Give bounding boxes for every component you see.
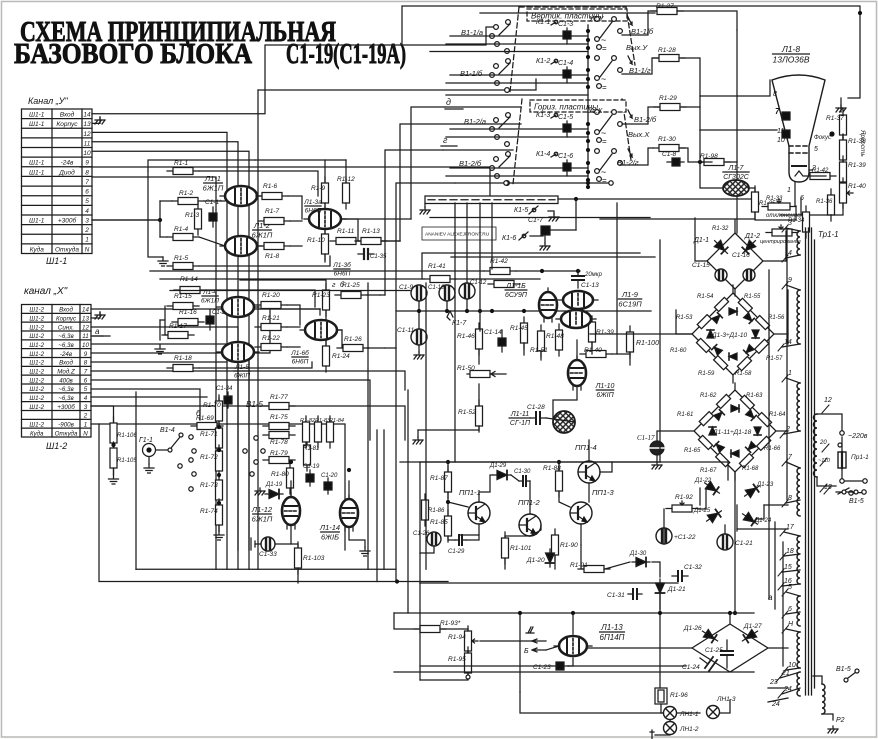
wire bbox=[447, 462, 449, 471]
resistor R1-29 bbox=[654, 104, 686, 111]
svg-text:R1-3: R1-3 bbox=[185, 212, 199, 219]
svg-text:6: 6 bbox=[84, 377, 88, 384]
svg-text:Р2: Р2 bbox=[836, 717, 845, 724]
label Л1-8 bbox=[772, 44, 809, 65]
svg-text:С1-3: С1-3 bbox=[558, 21, 573, 28]
svg-text:Ш1-2: Ш1-2 bbox=[29, 307, 44, 314]
wire bbox=[418, 429, 479, 431]
label Л1-9 bbox=[618, 290, 642, 309]
wire д line bbox=[445, 106, 521, 108]
wire pin8 bbox=[92, 177, 216, 569]
wire bbox=[420, 674, 468, 680]
svg-text:R1-24: R1-24 bbox=[332, 353, 350, 360]
svg-text:6Н6П: 6Н6П bbox=[305, 208, 322, 215]
svg-text:R1-67: R1-67 bbox=[700, 468, 717, 474]
wire -900в bus bbox=[99, 424, 448, 582]
resistor R1-27 bbox=[651, 8, 683, 15]
svg-text:17: 17 bbox=[786, 524, 795, 531]
tube Л1-6 bbox=[300, 320, 342, 340]
connector table Ш1-1 (канал У) bbox=[22, 109, 93, 254]
svg-text:Д1-3÷Д1-10: Д1-3÷Д1-10 bbox=[711, 332, 748, 339]
svg-text:Ш1-2: Ш1-2 bbox=[29, 342, 44, 349]
wire C1-9 to C1-11 bbox=[418, 301, 420, 329]
svg-text:Д1-30: Д1-30 bbox=[629, 551, 647, 557]
capacitor С1-26 bbox=[427, 532, 441, 546]
wire R1-9 top bbox=[324, 160, 326, 182]
wire bbox=[287, 346, 300, 348]
svg-text:К1-7: К1-7 bbox=[452, 320, 467, 327]
svg-text:Фокус: Фокус bbox=[814, 135, 831, 141]
svg-text:С1-11: С1-11 bbox=[397, 327, 415, 334]
wire bus y219 bbox=[600, 218, 755, 220]
svg-text:В1-2/б: В1-2/б bbox=[634, 115, 657, 124]
svg-text:R1-28: R1-28 bbox=[658, 47, 676, 54]
label Л1-3а bbox=[303, 199, 322, 215]
svg-text:С1-4: С1-4 bbox=[558, 60, 573, 67]
winding W1 bbox=[797, 231, 800, 255]
resistor R1-7 bbox=[258, 218, 290, 225]
wire rail y462 bbox=[400, 461, 660, 463]
wire bbox=[734, 383, 736, 390]
wire bbox=[418, 345, 420, 352]
wire bbox=[698, 488, 706, 509]
wire bbox=[447, 502, 449, 515]
svg-text:9: 9 bbox=[84, 351, 88, 358]
svg-text:5: 5 bbox=[814, 146, 818, 153]
winding W3 bbox=[797, 383, 800, 431]
switch В1-2/а bbox=[490, 113, 511, 147]
capacitor C1-34 bbox=[224, 392, 232, 408]
potentiometer R1-92 bbox=[666, 501, 698, 512]
wire bank row bbox=[450, 128, 588, 130]
svg-text:R1-56: R1-56 bbox=[768, 315, 785, 321]
wire R1-32 area bbox=[795, 206, 797, 220]
connector Г1-1 bbox=[143, 444, 156, 457]
label Л1-5 bbox=[234, 364, 250, 380]
svg-text:6ЖIБ: 6ЖIБ bbox=[321, 533, 339, 542]
capacitor C1-32 bbox=[672, 571, 688, 581]
svg-text:4: 4 bbox=[788, 250, 792, 257]
svg-text:г: г bbox=[443, 135, 448, 145]
wire bbox=[530, 525, 541, 536]
label Л1-2 bbox=[252, 221, 273, 240]
ground bbox=[95, 117, 105, 124]
wire bbox=[160, 236, 167, 238]
svg-text:R1-33: R1-33 bbox=[766, 196, 783, 202]
wire bbox=[842, 136, 844, 139]
contact К1-4 bbox=[551, 152, 558, 157]
wire R1-1 to V1 anode bbox=[199, 171, 318, 196]
svg-text:В1-5: В1-5 bbox=[246, 400, 263, 409]
wire bbox=[529, 481, 531, 514]
capacitor С1-15 bbox=[715, 269, 727, 281]
svg-text:Куда: Куда bbox=[30, 245, 45, 253]
svg-text:=: = bbox=[602, 83, 607, 92]
wire bbox=[505, 536, 530, 537]
wire bus y334 bbox=[590, 333, 692, 335]
wire bbox=[478, 426, 480, 430]
capacitor С1-5 bbox=[563, 121, 571, 137]
svg-text:Д1-23: Д1-23 bbox=[756, 482, 774, 488]
resistor R1-96 bbox=[655, 688, 667, 704]
capacitor С1-12 bbox=[459, 283, 475, 299]
box top rails bbox=[422, 253, 655, 279]
svg-text:R1-62: R1-62 bbox=[700, 393, 717, 399]
svg-text:К1-6: К1-6 bbox=[502, 235, 516, 242]
svg-text:Корпус: Корпус bbox=[56, 121, 78, 128]
wire y out 2 bbox=[411, 107, 445, 219]
connector table Ш1-2 (канал Х) bbox=[22, 305, 92, 438]
svg-text:R1-93*: R1-93* bbox=[440, 620, 461, 627]
wire bbox=[325, 341, 327, 345]
resistor R1-88 bbox=[556, 465, 563, 497]
wire pin3 +300б bbox=[92, 219, 160, 221]
wire ПП1-1 collector bbox=[479, 475, 493, 502]
wire bbox=[287, 326, 300, 328]
ground bbox=[360, 547, 370, 556]
svg-text:Мод.Z: Мод.Z bbox=[57, 369, 75, 376]
svg-text:-900в: -900в bbox=[58, 422, 74, 429]
resistor R1-6 bbox=[256, 193, 288, 200]
svg-text:-24в: -24в bbox=[61, 160, 74, 167]
svg-text:Л1-11: Л1-11 bbox=[510, 411, 529, 418]
wire y-amp left rail bbox=[148, 171, 163, 257]
wire bbox=[546, 418, 575, 422]
svg-text:R1-32: R1-32 bbox=[712, 226, 729, 232]
resistor R1-4 bbox=[167, 234, 199, 241]
wire bus x396 bbox=[395, 348, 397, 582]
wire bbox=[554, 556, 556, 569]
transistor ПП1-1 bbox=[468, 502, 490, 524]
resistor R1-25 bbox=[335, 292, 367, 299]
svg-text:R1-39: R1-39 bbox=[848, 162, 866, 169]
svg-text:7: 7 bbox=[84, 369, 88, 376]
svg-text:Д1-11÷Д1-18: Д1-11÷Д1-18 bbox=[712, 429, 752, 436]
wire bridge2 left bbox=[676, 310, 692, 334]
svg-text:R1-86: R1-86 bbox=[428, 508, 445, 514]
svg-text:400в: 400в bbox=[59, 377, 73, 384]
svg-text:R1-26: R1-26 bbox=[344, 336, 362, 343]
svg-text:Д1-29: Д1-29 bbox=[489, 463, 507, 469]
wire bus x769 bbox=[768, 270, 770, 599]
svg-text:Ш1-2: Ш1-2 bbox=[29, 324, 44, 331]
wire bank row bbox=[450, 35, 588, 37]
svg-text:Л1-6б: Л1-6б bbox=[290, 349, 309, 357]
resistor R1-38 bbox=[840, 134, 847, 166]
svg-text:R1-9: R1-9 bbox=[311, 185, 325, 192]
svg-text:Вход: Вход bbox=[60, 111, 75, 119]
svg-text:R1-91: R1-91 bbox=[570, 562, 588, 569]
svg-text:С1-10: С1-10 bbox=[428, 285, 445, 291]
svg-text:R1-48: R1-48 bbox=[546, 333, 564, 340]
wire bbox=[822, 714, 833, 720]
svg-text:Пр1-1: Пр1-1 bbox=[851, 454, 869, 461]
wire bbox=[680, 148, 702, 162]
svg-text:5: 5 bbox=[84, 386, 88, 393]
deflection plate symbol 1 bbox=[782, 112, 790, 120]
wire bbox=[448, 537, 455, 540]
wire bus x258 bbox=[257, 90, 259, 569]
svg-text:R1-17: R1-17 bbox=[169, 323, 187, 330]
svg-text:6Ж1П: 6Ж1П bbox=[252, 231, 273, 240]
wire bus y217 bbox=[430, 217, 650, 219]
wire bbox=[478, 349, 480, 364]
svg-text:1: 1 bbox=[85, 237, 89, 244]
svg-text:ЛН1-3: ЛН1-3 bbox=[716, 696, 736, 703]
resistor R1-34 bbox=[803, 206, 810, 238]
resistor R1-10 bbox=[322, 228, 329, 260]
wire bridge3 to bus bbox=[734, 472, 736, 613]
wire bank row bbox=[446, 82, 588, 84]
resistor R1-74 bbox=[216, 499, 223, 531]
wire bbox=[467, 651, 469, 653]
svg-text:~6,3в: ~6,3в bbox=[58, 386, 74, 393]
svg-text:С1-30: С1-30 bbox=[514, 469, 531, 475]
winding P2 bbox=[822, 684, 825, 714]
svg-text:Д1-20: Д1-20 bbox=[526, 557, 545, 564]
wire bus x377 bbox=[376, 430, 378, 582]
svg-text:Диод: Диод bbox=[58, 168, 75, 176]
tube Л1-3 bbox=[304, 209, 346, 229]
wire bbox=[809, 175, 826, 177]
svg-text:8: 8 bbox=[85, 169, 89, 176]
svg-text:R1-54: R1-54 bbox=[697, 294, 714, 300]
tube Л1-1 bbox=[220, 186, 262, 206]
ground bbox=[95, 312, 105, 319]
wire bbox=[380, 294, 385, 296]
svg-text:11: 11 bbox=[82, 333, 88, 340]
wire bbox=[734, 472, 736, 480]
svg-text:R1-90: R1-90 bbox=[560, 542, 578, 549]
diode Д1-25b bbox=[704, 507, 724, 525]
svg-text:R1-22: R1-22 bbox=[262, 335, 280, 342]
wire bbox=[385, 347, 396, 349]
label Л1-15 bbox=[505, 283, 528, 299]
resistor R1-70 bbox=[216, 395, 223, 427]
wire bus x426 bbox=[425, 283, 427, 569]
tap 2 bbox=[780, 431, 800, 438]
svg-text:R1-64: R1-64 bbox=[769, 412, 786, 418]
ground bbox=[413, 437, 423, 444]
wire R1-4 to V2 bbox=[199, 237, 225, 246]
svg-text:С1-20: С1-20 bbox=[321, 473, 338, 479]
wire bus x787 bbox=[786, 230, 788, 500]
wire bbox=[663, 509, 665, 528]
label Л1-11 bbox=[509, 411, 531, 427]
node Фокус bbox=[829, 131, 834, 136]
svg-text:R1-85: R1-85 bbox=[430, 519, 448, 526]
svg-text:R1-74: R1-74 bbox=[200, 508, 218, 515]
wire bank row bbox=[446, 175, 588, 177]
wire CRT pin6 down bbox=[800, 198, 802, 215]
capacitor C1-29 bbox=[455, 535, 466, 545]
wire bus x368 bbox=[367, 283, 369, 569]
diode Д1-2 bbox=[739, 237, 758, 256]
svg-text:R1-55: R1-55 bbox=[744, 294, 761, 300]
resistor R1-87 bbox=[445, 466, 452, 498]
resistor R1-24 bbox=[323, 340, 330, 372]
label Л1-4 bbox=[201, 289, 219, 305]
svg-text:14: 14 bbox=[82, 307, 89, 314]
wire pin10 bus bbox=[92, 151, 249, 569]
wire bbox=[287, 305, 300, 325]
resistor R1-75 bbox=[263, 423, 295, 430]
svg-text:13ЛО36В: 13ЛО36В bbox=[772, 55, 809, 65]
svg-text:+300б: +300б bbox=[58, 216, 77, 224]
svg-text:R1-50: R1-50 bbox=[457, 365, 475, 372]
wire CRT pin1 down bbox=[794, 182, 796, 206]
wire R1-93 left bbox=[394, 613, 418, 629]
svg-text:R1-8: R1-8 bbox=[265, 253, 279, 260]
wire Ш1-2 pin1 -900в bbox=[91, 424, 345, 550]
wire bbox=[600, 462, 612, 472]
svg-text:Ш1-2: Ш1-2 bbox=[29, 316, 44, 323]
diode Д1-20 bbox=[546, 549, 555, 567]
svg-text:Тр1-1: Тр1-1 bbox=[818, 230, 839, 239]
svg-text:R1-18: R1-18 bbox=[174, 355, 192, 362]
svg-text:7: 7 bbox=[775, 107, 780, 116]
capacitor C1-13 bbox=[572, 270, 584, 288]
svg-text:3: 3 bbox=[85, 217, 89, 224]
capacitor С1-25 bbox=[721, 640, 733, 668]
wire R1-18 bbox=[199, 362, 312, 368]
wire bbox=[831, 204, 843, 215]
svg-text:С1-26: С1-26 bbox=[413, 531, 430, 537]
resistor R1-101 bbox=[502, 532, 509, 564]
svg-text:С1-16: С1-16 bbox=[732, 252, 750, 259]
svg-text:21: 21 bbox=[781, 670, 790, 677]
svg-text:R1-58: R1-58 bbox=[735, 371, 752, 377]
svg-text:3: 3 bbox=[788, 220, 792, 227]
tap Н bbox=[782, 626, 800, 633]
svg-text:+300б: +300б bbox=[57, 404, 75, 411]
capacitor С1-4 bbox=[563, 67, 571, 83]
svg-text:R1-37: R1-37 bbox=[826, 115, 844, 122]
wire bbox=[442, 629, 468, 631]
svg-text:R1-72: R1-72 bbox=[200, 454, 218, 461]
terminal circle bbox=[840, 468, 867, 483]
wire to V1 grid bbox=[204, 200, 225, 202]
svg-text:R1-51: R1-51 bbox=[530, 347, 548, 354]
svg-text:~220в: ~220в bbox=[848, 433, 868, 440]
resistor R1-40 bbox=[580, 351, 612, 358]
wire Ш1-2 pin4 bbox=[91, 396, 207, 398]
resistor R1-21 bbox=[255, 324, 287, 331]
ground bbox=[828, 726, 838, 733]
ground bbox=[652, 462, 662, 469]
wire bus y279b bbox=[456, 278, 540, 280]
svg-text:С1-13: С1-13 bbox=[581, 282, 599, 289]
svg-text:6: 6 bbox=[85, 189, 89, 196]
svg-text:R1-11: R1-11 bbox=[337, 228, 355, 235]
wire R1-8 out bbox=[290, 245, 302, 247]
wire to lamps bbox=[661, 704, 663, 713]
wire tap 24 bbox=[768, 698, 788, 702]
potentiometer R1-32 bbox=[766, 225, 798, 236]
svg-text:С1-6: С1-6 bbox=[558, 153, 573, 160]
svg-text:-24в: -24в bbox=[60, 351, 73, 358]
svg-text:С1-5: С1-5 bbox=[558, 114, 573, 121]
label Л1-13 bbox=[600, 623, 625, 642]
wire bbox=[682, 107, 700, 130]
svg-text:=: = bbox=[602, 176, 607, 185]
tap 12 bbox=[822, 405, 829, 413]
svg-text:С1-15: С1-15 bbox=[692, 262, 710, 269]
label Л1-12 bbox=[251, 505, 273, 524]
fuse Пр1-1 bbox=[838, 437, 846, 468]
svg-text:В1-2/а: В1-2/а bbox=[464, 117, 486, 126]
svg-text:R1-25: R1-25 bbox=[342, 282, 360, 289]
title text bbox=[14, 16, 406, 70]
wire bridge4 top bbox=[729, 613, 731, 624]
svg-text:20мкр: 20мкр bbox=[584, 272, 603, 278]
CRT Л1-8 13ЛО36В bbox=[772, 75, 825, 182]
wire to CRT grid bbox=[700, 80, 770, 96]
svg-text:7: 7 bbox=[85, 179, 89, 186]
svg-text:СГ-1П: СГ-1П bbox=[510, 420, 531, 427]
wire bridge4 to winding bbox=[768, 647, 788, 649]
wire bbox=[842, 182, 844, 184]
wire bank row bbox=[450, 74, 588, 76]
wire bbox=[568, 658, 573, 666]
diode Д1-21 bbox=[656, 579, 665, 597]
wire bus x492 bbox=[491, 203, 493, 269]
svg-text:Д1-22: Д1-22 bbox=[694, 478, 712, 484]
wire bbox=[736, 505, 738, 531]
tap 8 bbox=[782, 500, 800, 507]
tube Л1-14 bbox=[340, 495, 358, 531]
svg-text:R1-15: R1-15 bbox=[174, 293, 192, 300]
contact circle bbox=[504, 181, 508, 185]
wire bbox=[558, 462, 560, 470]
switch contacts right bank bbox=[243, 436, 265, 476]
tap 16 bbox=[778, 583, 800, 590]
svg-text:R1-42: R1-42 bbox=[812, 168, 829, 174]
svg-text:Д1-21: Д1-21 bbox=[667, 586, 686, 593]
resistor R1-42 bbox=[804, 173, 836, 180]
wire to Л1-7 bbox=[700, 162, 723, 188]
resistor R1-86 bbox=[422, 494, 429, 526]
potentiometer R1-33 bbox=[762, 199, 796, 210]
wire bbox=[255, 159, 346, 161]
svg-text:Л1-1Б: Л1-1Б bbox=[505, 283, 526, 290]
svg-text:R1-60: R1-60 bbox=[670, 348, 687, 354]
wire bus y271 bbox=[150, 270, 484, 272]
wire bus 666 bbox=[420, 665, 552, 667]
tap 15 bbox=[778, 569, 800, 576]
wire x-amp top rail bbox=[240, 280, 326, 289]
wire bbox=[417, 430, 419, 437]
svg-text:R1-101: R1-101 bbox=[510, 545, 532, 552]
resistor R1-9 bbox=[322, 177, 329, 209]
wire R1-6 out bbox=[288, 196, 302, 219]
tap 7 bbox=[782, 459, 800, 468]
wire bus y279 bbox=[160, 278, 424, 280]
svg-text:Вых.У: Вых.У bbox=[626, 43, 648, 52]
svg-text:БАЗОВОГО БЛОКА: БАЗОВОГО БЛОКА bbox=[14, 38, 252, 70]
resistor R1-37 bbox=[840, 109, 847, 141]
svg-text:ЛН1-1: ЛН1-1 bbox=[679, 711, 699, 718]
wire bbox=[382, 240, 400, 242]
wire R1-5 to V2 anode bbox=[199, 256, 330, 266]
svg-text:Л1-7: Л1-7 bbox=[728, 165, 745, 172]
svg-text:Л1-1: Л1-1 bbox=[204, 174, 221, 183]
wire bbox=[466, 535, 479, 540]
resistor R1-35 bbox=[752, 186, 759, 218]
transistor ПП1-3 bbox=[570, 502, 592, 524]
svg-text:R1-45: R1-45 bbox=[510, 325, 528, 332]
wire bbox=[466, 299, 468, 311]
